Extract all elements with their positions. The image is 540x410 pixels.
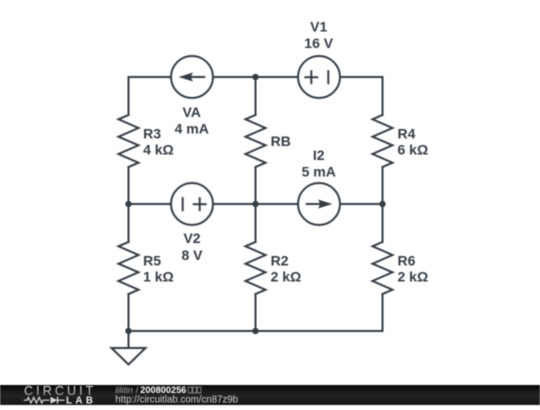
wire right rail R6 to bottom [382, 294, 384, 331]
node top middle junction [252, 74, 258, 80]
svg-text:16 V: 16 V [304, 35, 333, 51]
svg-text:V1: V1 [310, 18, 327, 34]
wire ground lead [128, 331, 130, 348]
node middle rail left junction [125, 201, 131, 207]
svg-text:lilitin / 200800256: lilitin / 200800256 [115, 385, 186, 395]
wire middle rail RB top [255, 77, 257, 115]
svg-text:V2: V2 [183, 230, 200, 246]
wire left rail R3 to mid [128, 167, 130, 242]
voltage source V1 plus sign [304, 70, 318, 84]
current source I2 arrow [306, 200, 333, 209]
node middle rail center junction [252, 201, 258, 207]
wire top rail middle segment [213, 76, 298, 78]
svg-text:RB: RB [271, 133, 291, 149]
svg-text:I2: I2 [313, 147, 325, 163]
ground symbol triangle [112, 348, 146, 365]
current source VA circle [171, 56, 213, 98]
resistor R4 [373, 115, 393, 167]
svg-text:R4: R4 [398, 126, 416, 142]
footer bar background [0, 385, 540, 405]
voltage source V2 minus bar [182, 197, 184, 211]
node bottom rail left junction [125, 328, 131, 334]
wire middle rail center segment [213, 203, 298, 205]
resistor R5 [119, 242, 139, 294]
resistor R2 [246, 242, 266, 294]
svg-text:R6: R6 [398, 253, 416, 269]
svg-text:R2: R2 [271, 253, 289, 269]
wire top rail right segment [340, 77, 383, 115]
current source VA arrow [179, 73, 206, 82]
node middle rail right junction [379, 201, 385, 207]
voltage source V2 plus sign [193, 197, 207, 211]
svg-text:4 mA: 4 mA [175, 121, 209, 137]
svg-text:8 V: 8 V [181, 247, 203, 263]
wire middle rail right segment [340, 203, 383, 205]
resistor R6 [373, 242, 393, 294]
logo resistor squiggle [24, 397, 50, 403]
logo diode [51, 397, 58, 404]
svg-text:4 kΩ: 4 kΩ [143, 142, 174, 158]
wire bottom rail [129, 330, 383, 332]
wire middle rail left segment [129, 203, 172, 205]
voltage source V1 minus bar [327, 70, 329, 84]
svg-text:VA: VA [182, 104, 200, 120]
svg-text:R3: R3 [143, 126, 161, 142]
svg-text:5 mA: 5 mA [302, 163, 336, 179]
resistor RB [246, 115, 266, 167]
svg-text:6 kΩ: 6 kΩ [398, 142, 429, 158]
voltage source V1 circle [298, 56, 340, 98]
wire left rail R5 to bottom [128, 294, 130, 331]
svg-text:R5: R5 [143, 253, 161, 269]
wire middle rail RB to mid [255, 167, 257, 242]
voltage source V2 circle [171, 183, 213, 225]
svg-text:1 kΩ: 1 kΩ [143, 269, 174, 285]
svg-text:2 kΩ: 2 kΩ [271, 269, 302, 285]
svg-text:http://circuitlab.com/cn87z9b: http://circuitlab.com/cn87z9b [115, 395, 238, 405]
svg-text:2 kΩ: 2 kΩ [398, 269, 429, 285]
footer tofu boxes [188, 387, 201, 393]
wire top rail left segment [129, 77, 172, 115]
wire middle rail R2 to bottom [255, 294, 257, 331]
node bottom rail center junction [252, 328, 258, 334]
svg-text:LAB: LAB [66, 395, 96, 405]
resistor R3 [119, 115, 139, 167]
current source I2 circle [298, 183, 340, 225]
wire right rail R4 to mid [382, 167, 384, 242]
